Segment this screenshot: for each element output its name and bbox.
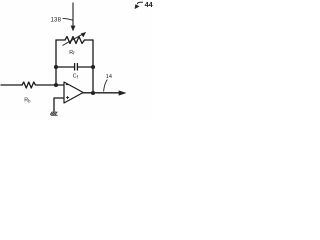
output arrow 14 <box>119 91 126 96</box>
svg-text:14: 14 <box>106 74 112 80</box>
wire input left <box>1 84 22 86</box>
wire left vertical of feedback loop <box>55 40 57 85</box>
op-amp plus sign <box>66 96 69 99</box>
capacitor Cf <box>75 64 78 71</box>
svg-text:44: 44 <box>145 0 153 9</box>
node: capacitor branch left junction <box>54 65 58 69</box>
control arrow 138 (points down at Rf) <box>71 3 75 32</box>
wire top branch left <box>56 39 65 41</box>
op-amp U1 <box>64 82 83 103</box>
resistor Rb <box>22 82 36 88</box>
svg-text:Rb: Rb <box>24 98 31 104</box>
node: capacitor branch right junction <box>91 65 95 69</box>
wire capacitor branch right <box>78 66 93 68</box>
leader line for 14 <box>104 80 108 92</box>
op-amp minus sign <box>66 84 69 86</box>
svg-text:Rf: Rf <box>69 50 75 56</box>
resistor Rf (variable) <box>65 37 85 44</box>
wire right vertical of feedback loop <box>92 40 94 93</box>
wire non-inverting input to ground <box>54 98 64 112</box>
ground <box>50 112 57 116</box>
wire top branch right <box>85 39 94 41</box>
svg-text:Cf: Cf <box>73 74 79 80</box>
variable resistor arrow through Rf <box>63 32 86 45</box>
node: inverting input junction <box>54 83 58 87</box>
leader line for 138 <box>63 18 73 20</box>
wire Rb to inverting input <box>36 84 64 86</box>
node: output junction <box>91 91 95 95</box>
background <box>0 0 153 120</box>
svg-text:138: 138 <box>51 18 62 24</box>
figure pointer arrow 44 <box>135 0 153 9</box>
wire op-amp output <box>83 92 120 94</box>
wire capacitor branch left <box>56 66 74 68</box>
